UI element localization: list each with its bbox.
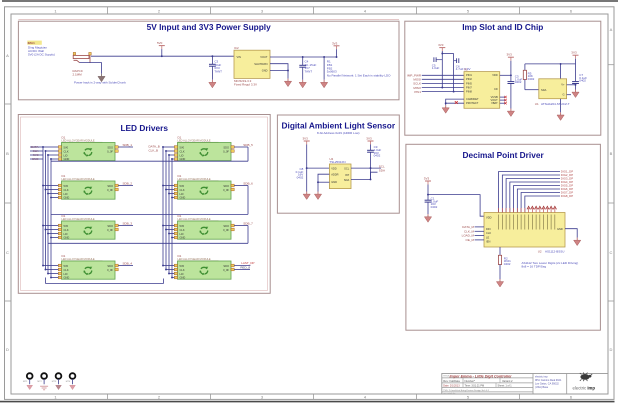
svg-text:U2: U2 bbox=[538, 249, 542, 253]
svg-text:1.0uF: 1.0uF bbox=[432, 66, 440, 70]
svg-text:CARDDET: CARDDET bbox=[466, 97, 479, 101]
svg-text:5V0: 5V0 bbox=[157, 41, 163, 45]
svg-text:B: B bbox=[6, 151, 9, 156]
svg-text:SHUTDWN: SHUTDWN bbox=[254, 62, 267, 66]
svg-text:GND: GND bbox=[557, 227, 563, 231]
svg-text:/EN: /EN bbox=[486, 240, 490, 244]
svg-text:VDD: VDD bbox=[331, 166, 337, 170]
svg-text:PIN1: PIN1 bbox=[466, 73, 472, 77]
svg-text:B: B bbox=[610, 151, 613, 156]
svg-text:LE: LE bbox=[486, 235, 489, 239]
svg-text:3V3: 3V3 bbox=[332, 41, 338, 45]
svg-text:SDB_4: SDB_4 bbox=[123, 261, 133, 265]
svg-text:ATSHA204-STUCZ-T: ATSHA204-STUCZ-T bbox=[541, 102, 570, 106]
svg-text:D: D bbox=[610, 347, 613, 352]
svg-text:DIN: DIN bbox=[486, 227, 491, 231]
svg-text:PIN1: PIN1 bbox=[414, 90, 421, 94]
svg-text:Sheet: 1 of 1: Sheet: 1 of 1 bbox=[498, 384, 513, 387]
svg-text:D: D bbox=[6, 347, 9, 352]
svg-text:G: G bbox=[562, 93, 564, 97]
svg-text:U1: U1 bbox=[535, 102, 539, 106]
svg-text:rev control doc: rev control doc bbox=[443, 392, 455, 395]
svg-text:SDB_2: SDB_2 bbox=[123, 181, 133, 185]
svg-text:IMA1: IMA1 bbox=[28, 41, 35, 45]
svg-text:Rev: FabData: Rev: FabData bbox=[443, 379, 460, 383]
svg-text:SDB_5: SDB_5 bbox=[243, 143, 253, 147]
svg-text:SDB_3: SDB_3 bbox=[123, 221, 133, 225]
svg-text:8x8 = 16 TDP/Seg: 8x8 = 16 TDP/Seg bbox=[522, 264, 547, 268]
svg-text:SDA: SDA bbox=[379, 168, 385, 172]
svg-text:GND: GND bbox=[331, 180, 337, 184]
svg-text:VBAT: VBAT bbox=[491, 101, 498, 105]
svg-text:8-bit Address 0x29 (ADDR Low): 8-bit Address 0x29 (ADDR Low) bbox=[317, 131, 360, 135]
svg-text:Variant 2: Variant 2 bbox=[502, 379, 513, 383]
svg-text:Imper Emma - Little Digit Cont: Imper Emma - Little Digit Controller bbox=[450, 374, 513, 378]
svg-text:C: C bbox=[6, 250, 9, 255]
svg-text:0402: 0402 bbox=[431, 205, 438, 209]
svg-text:MT4: MT4 bbox=[66, 381, 71, 383]
svg-text:SDB_6: SDB_6 bbox=[243, 181, 253, 185]
svg-text:PIN8: PIN8 bbox=[466, 90, 472, 94]
svg-text:VDD: VDD bbox=[492, 73, 498, 77]
svg-text:CLK_B: CLK_B bbox=[149, 149, 159, 153]
svg-text:AS1112-BSSU: AS1112-BSSU bbox=[545, 249, 564, 253]
svg-text:TANT: TANT bbox=[305, 70, 313, 74]
svg-text:Number*: Number* bbox=[465, 379, 476, 383]
svg-text:SDB_7: SDB_7 bbox=[243, 221, 253, 225]
svg-text:Date: 2/1/2013: Date: 2/1/2013 bbox=[443, 384, 460, 387]
svg-text:INT: INT bbox=[345, 173, 350, 177]
svg-text:PIN2: PIN2 bbox=[466, 77, 472, 81]
svg-text:0402: 0402 bbox=[504, 262, 511, 266]
svg-text:PIN5: PIN5 bbox=[466, 81, 472, 85]
svg-text:ADDR: ADDR bbox=[331, 172, 338, 176]
svg-text:MT3: MT3 bbox=[52, 381, 57, 383]
svg-text:SDB_1: SDB_1 bbox=[123, 143, 133, 147]
svg-text:No Parallel Network: 1 Set Eac: No Parallel Network: 1 Set Each is stabi… bbox=[327, 74, 391, 78]
svg-text:RED_8: RED_8 bbox=[240, 266, 250, 270]
svg-text:electric imp: electric imp bbox=[573, 386, 596, 391]
svg-text:Imp Slot and ID Chip: Imp Slot and ID Chip bbox=[462, 22, 543, 32]
svg-text:5V Input and 3V3 Power Supply: 5V Input and 3V3 Power Supply bbox=[147, 22, 271, 32]
svg-text:5V0 (2A DC Supply): 5V0 (2A DC Supply) bbox=[28, 52, 55, 56]
svg-text:3V3: 3V3 bbox=[303, 137, 309, 141]
svg-text:Fixed Regul 3.3V: Fixed Regul 3.3V bbox=[234, 83, 257, 87]
svg-text:LAST_DP: LAST_DP bbox=[241, 261, 254, 265]
svg-text:CD: CD bbox=[494, 87, 498, 91]
svg-text:OE_M: OE_M bbox=[465, 238, 474, 242]
svg-text:VOUT: VOUT bbox=[260, 55, 268, 59]
svg-text:3V3: 3V3 bbox=[571, 51, 577, 55]
svg-text:TSD: 2-Level-first Entry-Devic: TSD: 2-Level-first Entry-Device-Design-S… bbox=[443, 389, 490, 392]
svg-text:(USA) Base: (USA) Base bbox=[535, 386, 549, 389]
svg-text:0402: 0402 bbox=[579, 79, 586, 83]
svg-text:IC2: IC2 bbox=[234, 46, 239, 50]
svg-text:3V3: 3V3 bbox=[438, 43, 444, 47]
svg-text:TANT: TANT bbox=[214, 70, 222, 74]
svg-text:3V3: 3V3 bbox=[424, 176, 430, 180]
svg-text:V+: V+ bbox=[561, 83, 565, 87]
svg-text:SDA: SDA bbox=[541, 88, 547, 92]
svg-text:VIN: VIN bbox=[237, 55, 241, 59]
svg-text:0402: 0402 bbox=[528, 77, 535, 81]
svg-text:VDD: VDD bbox=[486, 215, 492, 219]
svg-text:0402: 0402 bbox=[515, 80, 522, 84]
svg-text:Decimal Point Driver: Decimal Point Driver bbox=[463, 150, 545, 160]
svg-text:DIG8_DP: DIG8_DP bbox=[561, 194, 573, 198]
svg-text:CLK: CLK bbox=[486, 231, 491, 235]
svg-text:TSL2561FN: TSL2561FN bbox=[329, 160, 345, 164]
svg-text:SDA: SDA bbox=[344, 178, 350, 182]
svg-text:3V3: 3V3 bbox=[507, 53, 513, 57]
svg-text:PIN7: PIN7 bbox=[466, 85, 472, 89]
svg-text:Time: 3:51:21 PM: Time: 3:51:21 PM bbox=[465, 384, 485, 387]
svg-text:SCL: SCL bbox=[344, 166, 350, 170]
svg-text:3V3: 3V3 bbox=[366, 137, 372, 141]
svg-text:Digital Ambient Light Sensor: Digital Ambient Light Sensor bbox=[282, 121, 396, 131]
svg-text:0402: 0402 bbox=[297, 175, 304, 179]
svg-text:A: A bbox=[610, 27, 613, 32]
svg-text:C: C bbox=[610, 250, 613, 255]
svg-text:A: A bbox=[6, 53, 9, 58]
svg-text:X1: X1 bbox=[464, 68, 468, 72]
svg-text:PROTECT: PROTECT bbox=[466, 101, 479, 105]
svg-text:LED Drivers: LED Drivers bbox=[120, 123, 168, 133]
svg-text:0402: 0402 bbox=[374, 154, 381, 158]
svg-text:Power hack is 2-way with Solde: Power hack is 2-way with SolderChunk bbox=[74, 80, 126, 84]
svg-text:GND: GND bbox=[262, 69, 268, 73]
svg-text:2.1MM: 2.1MM bbox=[73, 73, 83, 77]
